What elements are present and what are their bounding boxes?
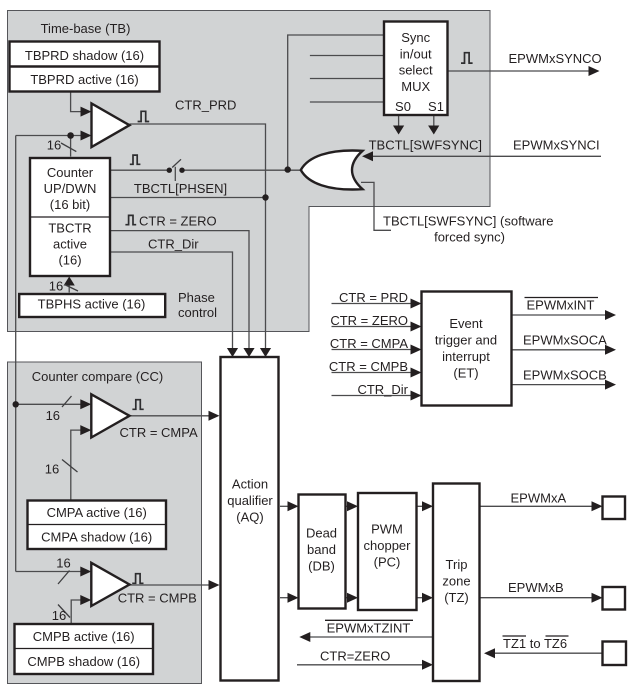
register CMPB active/shadow (15, 624, 154, 674)
arrowhead bus into comparator A (80, 399, 91, 409)
junction dot CMPA branch (13, 401, 19, 407)
svg-text:(AQ): (AQ) (236, 510, 263, 525)
arrowhead EPWMxSYNCI into OR (362, 151, 373, 161)
bus width slash comparator B top (58, 571, 70, 585)
wire ET input CTR = CMPA (332, 349, 418, 351)
wire TBPRD to comparator input (71, 92, 87, 112)
arrowhead ET in CTR = CMPA (411, 345, 422, 355)
OR gate sync combine (301, 151, 363, 190)
svg-text:TBCTR: TBCTR (48, 221, 91, 236)
wire switch leader to TBCTL[PHSEN] label (174, 167, 176, 181)
wire PC to TZ lower (417, 597, 429, 599)
svg-text:EPWMxSOCA: EPWMxSOCA (523, 333, 607, 348)
svg-text:16: 16 (46, 408, 60, 423)
svg-text:CTR = CMPB: CTR = CMPB (118, 591, 197, 606)
wire AQ to DB lower (280, 597, 294, 599)
svg-text:16: 16 (49, 279, 63, 294)
counter TBCTR block (30, 158, 110, 276)
svg-text:Counter compare (CC): Counter compare (CC) (32, 369, 164, 384)
wire ET input CTR_Dir (332, 395, 418, 397)
arrowhead CTR = CMPB into AQ (209, 580, 220, 590)
pulse symbol EPWMxSYNCO (461, 53, 473, 63)
junction dot TBCTR bus (67, 132, 74, 139)
register TBPHS active (19, 294, 165, 317)
label EPWMxINT with overline (525, 298, 599, 313)
arrowhead CMPA into comparator A (80, 425, 91, 435)
arrowhead CTR=ZERO into AQ (243, 348, 254, 357)
arrowhead S1 (428, 126, 439, 135)
svg-text:qualifier: qualifier (227, 493, 273, 508)
label Action qualifier (AQ) (227, 477, 273, 525)
wire S1 select (433, 115, 435, 126)
wire comparator B output CTR = CMPB (129, 584, 216, 586)
svg-text:Action: Action (232, 477, 268, 492)
svg-text:CTR = PRD: CTR = PRD (339, 290, 408, 305)
arrowhead CTR_PRD into AQ (260, 348, 271, 357)
svg-text:(16): (16) (58, 253, 81, 268)
arrowhead DB to PC upper (347, 501, 358, 511)
wire DB to PC upper (346, 505, 353, 507)
svg-text:EPWMxSYNCI: EPWMxSYNCI (513, 138, 600, 153)
label TBCTR active (16) (48, 221, 91, 268)
junction dot counter sync tap (262, 194, 268, 200)
arrowhead EPWMxTZINT (299, 632, 310, 642)
wire TBCTR left bus vertical (15, 136, 17, 572)
svg-text:Counter: Counter (47, 165, 94, 180)
wire EPWMxB output (480, 597, 598, 599)
arrowhead EPWMxB (592, 593, 603, 603)
wire EPWMxINT output (511, 314, 606, 316)
pulse symbol CTR = CMPB (132, 574, 143, 584)
arrowhead CTR=ZERO into TZ (422, 660, 433, 670)
bus width slash TBPHS (65, 285, 79, 292)
svg-text:Event: Event (449, 316, 483, 331)
wire EPWMxSYNCO output (448, 70, 591, 72)
svg-text:select: select (399, 63, 433, 78)
svg-text:EPWMxA: EPWMxA (511, 491, 567, 506)
wire comparator A output CTR = CMPA (130, 415, 216, 417)
wire EPWMxTZINT output (310, 636, 433, 638)
wire CTR_PRD net (130, 124, 266, 353)
svg-text:Trip: Trip (446, 557, 468, 572)
svg-text:CTR = CMPB: CTR = CMPB (329, 359, 408, 374)
svg-text:16: 16 (47, 138, 61, 153)
arrowhead EPWMxSYNCO (589, 66, 600, 76)
svg-text:CTR_Dir: CTR_Dir (357, 382, 408, 397)
wire CTR=ZERO into trip zone (297, 664, 428, 666)
junction dot OR output to MUX (285, 166, 291, 172)
svg-text:(DB): (DB) (308, 559, 335, 574)
Counter compare (CC) submodule region (8, 362, 202, 684)
wire DB to PC lower (346, 597, 353, 599)
Time-base (TB) submodule region (8, 11, 491, 332)
svg-text:TZ1 to TZ6: TZ1 to TZ6 (503, 636, 567, 651)
svg-text:CMPA active (16): CMPA active (16) (47, 505, 147, 520)
wire OR output up to sync MUX input 1 (288, 35, 384, 170)
svg-text:forced sync): forced sync) (434, 230, 505, 245)
svg-text:active: active (53, 237, 87, 252)
wire counter top to TBCTR bus (70, 136, 72, 157)
wire ET input CTR = PRD (332, 303, 418, 305)
arrowhead TZ1 to TZ6 into TZ (484, 648, 495, 658)
trip zone (TZ) block (433, 484, 480, 682)
svg-text:CTR = CMPA: CTR = CMPA (120, 425, 198, 440)
svg-text:Time-base (TB): Time-base (TB) (41, 21, 131, 36)
svg-text:UP/DWN: UP/DWN (44, 181, 97, 196)
svg-text:CMPB active (16): CMPB active (16) (33, 629, 135, 644)
event trigger and interrupt (ET) block (422, 292, 512, 406)
svg-text:CTR_PRD: CTR_PRD (175, 98, 236, 113)
svg-text:TBCTL[PHSEN]: TBCTL[PHSEN] (134, 181, 227, 196)
svg-text:S1: S1 (428, 99, 444, 114)
wire TBCTR bus horizontal to comparator (16, 135, 87, 137)
wire EPWMxSOCA output (511, 349, 606, 351)
dead band (DB) block (299, 495, 346, 609)
pulse symbol phase load (130, 155, 141, 164)
comparator CTR = CMPA (91, 394, 129, 437)
bus width slash CMPA (62, 460, 78, 473)
arrowhead bus into comparator B (80, 567, 91, 577)
pulse symbol CTR_PRD (138, 111, 150, 121)
wire EPWMxSYNCI input (372, 155, 601, 157)
wire EPWMxA output (480, 505, 598, 507)
arrowhead AQ to DB upper (288, 501, 299, 511)
arrowhead EPWMxSOCB (605, 380, 616, 390)
wire AQ to DB upper (280, 505, 294, 507)
svg-text:CTR = ZERO: CTR = ZERO (330, 313, 408, 328)
svg-text:TBCTL[SWFSYNC]: TBCTL[SWFSYNC] (369, 138, 482, 153)
svg-text:chopper: chopper (364, 538, 412, 553)
arrowhead PC to TZ upper (422, 501, 433, 511)
svg-text:CTR=ZERO: CTR=ZERO (320, 649, 390, 664)
svg-text:CMPB shadow (16): CMPB shadow (16) (27, 654, 140, 669)
label Dead band (DB) (306, 526, 337, 574)
svg-text:(16 bit): (16 bit) (50, 197, 90, 212)
bus width slash comparator A top (62, 396, 72, 407)
svg-text:band: band (307, 542, 336, 557)
svg-text:TBPHS active (16): TBPHS active (16) (38, 297, 146, 312)
arrowhead S0 (393, 126, 404, 135)
label PWM chopper (PC) (364, 522, 412, 570)
wire phase load line counter to switch (110, 169, 169, 171)
wire switch to OR gate output (182, 169, 301, 171)
arrowhead DB to PC lower (347, 593, 358, 603)
svg-text:EPWMxINT: EPWMxINT (527, 298, 595, 313)
label Trip zone (TZ) (442, 557, 470, 605)
pulse symbol CTR = CMPA (132, 400, 143, 410)
svg-text:(TZ): (TZ) (444, 590, 469, 605)
label TZ1 to TZ6 with overlines (503, 636, 569, 651)
arrowhead EPWMxINT (605, 310, 616, 320)
wire S0 select (398, 115, 400, 126)
svg-text:16: 16 (52, 608, 66, 623)
svg-text:Phase: Phase (178, 290, 215, 305)
wire CTR = ZERO net (110, 231, 249, 353)
arrowhead ET in CTR = ZERO (411, 322, 422, 332)
svg-text:(PC): (PC) (374, 555, 401, 570)
arrowhead PC to TZ lower (422, 593, 433, 603)
PWM chopper (PC) block (358, 493, 417, 610)
arrowhead EPWMxA (592, 501, 603, 511)
svg-text:CTR = CMPA: CTR = CMPA (330, 336, 408, 351)
label TBCTL[SWFSYNC] (software forced sync) (383, 214, 553, 245)
wire PC to TZ upper (417, 505, 429, 507)
wire CMPA register to comparator A (71, 430, 87, 500)
comparator CTR_PRD (92, 104, 130, 148)
wire counter sync tap (110, 197, 266, 199)
wire sync MUX input 2 stub (310, 55, 384, 57)
svg-text:zone: zone (442, 574, 470, 589)
svg-text:EPWMxSOCB: EPWMxSOCB (523, 368, 607, 383)
bus width slash comparator top (61, 143, 76, 152)
arrowhead CTR_Dir into AQ (227, 348, 238, 357)
wire CTR_Dir net (110, 252, 233, 353)
register TBPRD shadow/active (10, 42, 160, 92)
svg-text:16: 16 (56, 556, 70, 571)
wire TBPHS to counter (68, 284, 70, 293)
svg-text:TBPRD active (16): TBPRD active (16) (30, 72, 138, 87)
svg-text:TBCTL[SWFSYNC] (software: TBCTL[SWFSYNC] (software (383, 214, 553, 229)
arrowhead CMPB into comparator B (80, 595, 91, 605)
svg-text:EPWMxTZINT: EPWMxTZINT (327, 621, 411, 636)
svg-text:MUX: MUX (401, 79, 430, 94)
wire ET input CTR = ZERO (332, 326, 418, 328)
svg-text:16: 16 (45, 462, 59, 477)
arrowhead ET in CTR = CMPB (411, 368, 422, 378)
svg-text:S0: S0 (395, 99, 411, 114)
label Phase control (178, 290, 217, 320)
svg-text:Dead: Dead (306, 526, 337, 541)
svg-text:EPWMxB: EPWMxB (508, 580, 564, 595)
wire sync MUX input 4 stub (310, 101, 384, 103)
svg-text:interrupt: interrupt (442, 349, 490, 364)
label Sync in/out select MUX (399, 30, 433, 94)
svg-text:CMPA shadow (16): CMPA shadow (16) (41, 530, 152, 545)
svg-text:trigger and: trigger and (435, 333, 497, 348)
arrowhead ET in CTR = PRD (411, 299, 422, 309)
wire ET input CTR = CMPB (332, 372, 418, 374)
sync in/out select MUX U1 (384, 22, 448, 116)
arrowhead ET in CTR_Dir (411, 391, 422, 401)
wire CMPB register to comparator B (71, 600, 86, 624)
wire CMPA bus to comparator A (16, 403, 87, 405)
register CMPA active/shadow (28, 501, 167, 550)
arrowhead TBPRD into comparator (81, 107, 92, 117)
pin square TZ (603, 642, 627, 666)
svg-text:EPWMxSYNCO: EPWMxSYNCO (509, 51, 602, 66)
switch TBCTL[PHSEN] (167, 159, 185, 173)
wire TZ1 to TZ6 input (494, 652, 603, 654)
svg-text:control: control (178, 305, 217, 320)
arrowhead EPWMxSOCA (605, 345, 616, 355)
svg-text:CTR_Dir: CTR_Dir (148, 237, 199, 252)
action qualifier (AQ) block (221, 357, 279, 681)
svg-text:PWM: PWM (371, 522, 403, 537)
arrowhead TBPHS into counter (64, 277, 75, 286)
wire EPWMxSOCB output (511, 384, 606, 386)
pin square EPWMxB (603, 587, 626, 610)
label Counter UP/DWN (16 bit) (44, 165, 97, 212)
svg-text:(ET): (ET) (453, 366, 478, 381)
svg-text:CTR = ZERO: CTR = ZERO (139, 214, 217, 229)
label EPWMxTZINT with overline (325, 620, 413, 635)
label Event trigger and interrupt (ET) (435, 316, 497, 381)
pin square EPWMxA (603, 497, 626, 520)
wire software forced sync into OR gate (361, 182, 391, 230)
arrowhead CTR = CMPA into AQ (209, 411, 220, 421)
bus width slash CMPB (58, 605, 70, 618)
arrowhead AQ to DB lower (288, 593, 299, 603)
wire TBCTR bus to comparator B (16, 571, 86, 573)
comparator CTR = CMPB (91, 563, 129, 606)
svg-text:in/out: in/out (400, 46, 432, 61)
wire sync MUX input 3 stub (310, 78, 384, 80)
pulse symbol CTR = ZERO (125, 215, 136, 224)
svg-text:Sync: Sync (401, 30, 430, 45)
svg-text:TBPRD shadow (16): TBPRD shadow (16) (25, 48, 144, 63)
arrowhead TBCTR into comparator (81, 131, 92, 141)
